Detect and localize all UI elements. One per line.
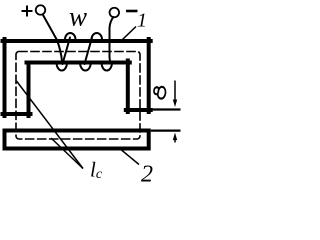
winding top bump 2: [92, 33, 103, 40]
leader line l_c steep: [17, 81, 84, 169]
arrowhead up: [173, 133, 177, 141]
left limb bottom cap: [3, 112, 31, 116]
core outer top edge: [3, 39, 151, 43]
arrowhead down: [173, 100, 177, 108]
svg-text:1: 1: [137, 10, 147, 32]
winding lower arc 3: [102, 63, 113, 71]
terminal circle +: [36, 5, 46, 15]
leader line l_c shallow: [51, 138, 83, 169]
leader line for 1: [123, 27, 137, 40]
right limb bottom cap: [126, 108, 151, 112]
terminal circle -: [110, 8, 120, 18]
winding lower arc 1: [57, 63, 68, 71]
armature bar 2: [5, 131, 149, 149]
winding lower arc 2: [80, 63, 91, 71]
wire lead from + terminal: [43, 15, 62, 61]
dimension extension line upper: [151, 108, 181, 110]
svg-text:2: 2: [141, 162, 153, 188]
svg-text:w: w: [69, 2, 87, 32]
core U-shape 1: outer left vertical: [3, 39, 7, 116]
dimension line upper segment: [174, 81, 176, 104]
core inner window right vertical: [126, 61, 130, 113]
dimension extension line lower: [151, 130, 181, 132]
plus sign: [22, 6, 33, 17]
core outer right vertical: [147, 39, 151, 112]
core inner window top edge: [27, 61, 130, 65]
dashed mean path l_c: [16, 52, 140, 140]
delta label (rotated): [154, 87, 166, 99]
winding crossing diagonal 2: [85, 38, 93, 65]
core inner window left vertical: [27, 63, 31, 117]
minus sign: [126, 10, 138, 13]
winding crossing diagonal 1: [63, 38, 71, 65]
leader line for 2: [119, 148, 140, 165]
winding top bump 1: [65, 33, 76, 40]
dimension line lower segment: [174, 138, 176, 142]
wire lead from - terminal: [110, 17, 114, 63]
